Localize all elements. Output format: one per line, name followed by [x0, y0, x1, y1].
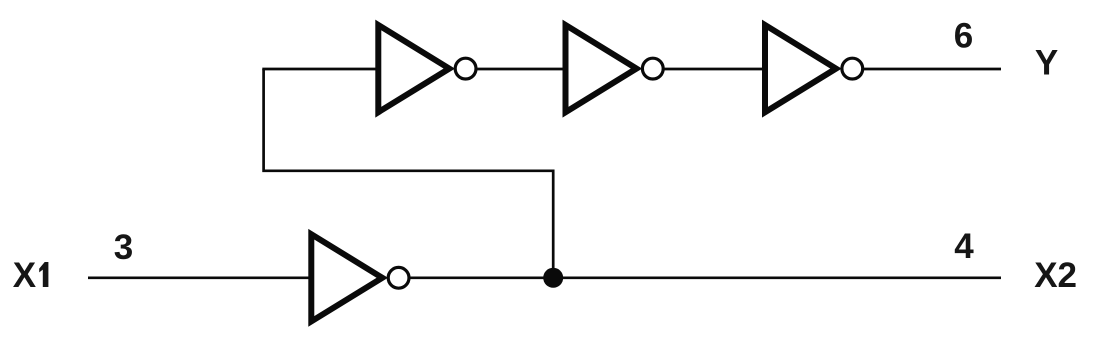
wire: inverter 4 output through junction to X2 — [410, 276, 1001, 279]
svg-text:3: 3 — [114, 228, 133, 267]
wire: X1 input to inverter 4 — [88, 276, 310, 279]
feedback wire from node X2 up and over to inverter 1 input — [264, 69, 554, 278]
inverter 2 triangle — [566, 25, 637, 112]
junction dot at node X2 — [543, 268, 563, 288]
svg-text:X: X — [13, 256, 37, 295]
inverter 1 triangle — [378, 25, 449, 112]
svg-text:X2: X2 — [1034, 256, 1077, 295]
wire: inverter 1 output to inverter 2 input — [477, 68, 564, 71]
wire: inverter 2 output to inverter 3 input — [664, 68, 763, 71]
inverter 2 bubble — [642, 58, 663, 79]
svg-text:Y: Y — [1035, 44, 1058, 83]
node X1 label: digit 1 (drawn to match source glyph) — [39, 262, 48, 287]
svg-text:4: 4 — [954, 227, 974, 266]
inverter 3 bubble — [842, 58, 863, 79]
inverter 4 bubble — [388, 267, 409, 288]
inverter 1 bubble — [455, 58, 476, 79]
inverter 4 triangle — [311, 234, 382, 321]
wire: inverter 3 output to Y — [864, 68, 1001, 71]
inverter 3 triangle — [765, 25, 836, 112]
wire: input segment to inverter 1 — [262, 68, 376, 71]
svg-text:6: 6 — [954, 17, 973, 56]
